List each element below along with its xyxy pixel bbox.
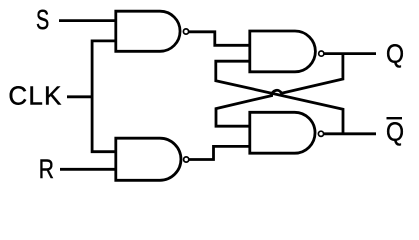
svg-text:R: R bbox=[39, 155, 54, 185]
svg-text:S: S bbox=[36, 5, 49, 36]
svg-text:Q: Q bbox=[386, 118, 404, 147]
svg-text:Q: Q bbox=[386, 40, 404, 69]
svg-text:CLK: CLK bbox=[8, 81, 62, 111]
